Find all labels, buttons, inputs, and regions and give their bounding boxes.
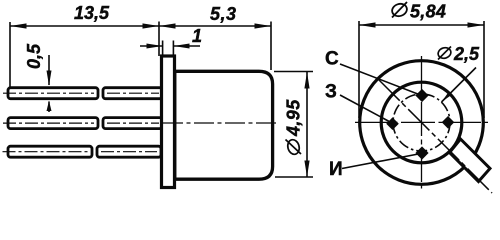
vertical center line [421,56,423,189]
leader C to top pin [340,64,423,96]
svg-text:И: И [329,159,343,180]
extension line at flange left [158,22,160,57]
svg-text:2,5: 2,5 [453,44,480,64]
extension line left (lead tip) [9,22,11,89]
pin pitch circle (dash-dot) [393,94,450,151]
label diameter 5,84 [391,2,447,22]
label diameter 4,95 (rotated) [284,99,304,156]
pin dot right (case) [442,116,455,129]
arrow right of 13,5 [143,23,160,28]
svg-text:5,84: 5,84 [410,2,446,22]
lead 1 (top) right segment [103,88,162,99]
svg-text:З: З [325,82,337,103]
axis center line of side view [163,122,277,124]
dimension line 13,5 / 5,3 (top row) [10,25,271,27]
svg-text:0,5: 0,5 [24,43,44,69]
diagonal center line through tab [379,80,493,194]
svg-text:1: 1 [192,26,202,46]
key tab (white outline rectangle at 45 deg) [450,139,491,182]
leader I to bottom pin [342,154,421,169]
outer flange circle [360,61,484,185]
arrow left of 5,3 [159,23,176,28]
lead 2 (middle) left segment [3,118,98,129]
svg-text:С: С [325,49,339,70]
pin dot top (drain C) [415,89,428,102]
leader for 2,5 to pitch circle [442,68,477,103]
dimension 1 (flange thickness) [140,45,163,47]
lead 3 (bottom) right segment [97,146,161,157]
svg-text:4,95: 4,95 [284,99,304,137]
label diameter 2,5 with leader [437,44,480,64]
dimension diameter 5,84 [359,24,484,26]
leader Z to left pin [340,95,392,123]
case body (metal can, side view) [175,71,273,179]
horizontal center line [355,121,488,123]
dimension diameter 4,95 (can) [274,71,313,73]
svg-text:13,5: 13,5 [74,3,110,23]
svg-text:5,3: 5,3 [210,4,237,24]
lead 1 (top) left segment [3,88,98,99]
extension line at body right [270,22,272,71]
arrow left of 13,5 [10,23,27,28]
arrow right of 5,3 [255,23,272,28]
lead 2 (middle) right segment [103,118,162,129]
flange (header disc, side view) [162,56,175,188]
pin dot bottom (source I) [415,146,428,159]
dimension 0,5 (lead thickness) [48,55,50,85]
pin dot left (gate Z) [386,117,399,130]
flange wall extension stubs [162,41,164,58]
inner can circle [381,82,462,163]
lead 3 (bottom) left segment [3,146,93,157]
